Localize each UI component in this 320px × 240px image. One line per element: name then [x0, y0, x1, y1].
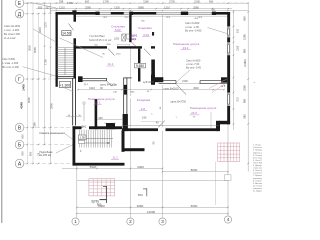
- top exterior wall: [56, 12, 231, 15]
- right rotated dimension numbers col1: [237, 28, 240, 101]
- main bottom exterior wall left part: [122, 128, 158, 131]
- svg-text:600: 600: [243, 16, 247, 21]
- svg-text:1786: 1786: [67, 1, 73, 5]
- svg-text:щель Б=2100: щель Б=2100: [164, 88, 179, 91]
- interior wall H2 double line left: [159, 81, 176, 84]
- symbol stick with circle: [83, 102, 85, 121]
- door swing leaves: [69, 24, 165, 128]
- axis vertical below plan 2: [129, 131, 131, 218]
- svg-text:1320: 1320: [114, 5, 120, 9]
- top dimension numbers row1: [59, 0, 214, 5]
- svg-text:u отм -7.00: u отм -7.00: [186, 62, 200, 66]
- svg-text:1580: 1580: [243, 34, 247, 40]
- ticks left ladder x44.5: [44, 13, 46, 15]
- ticks left ladder x27.5: [27, 2, 29, 4]
- svg-text:Во отм -2.400: Во отм -2.400: [3, 65, 20, 69]
- lower block bottom wall: [73, 163, 125, 166]
- right dim chain verticals: [233, 10, 235, 130]
- svg-text:9.650: 9.650: [136, 64, 144, 68]
- ticks right chain x233.5: [233, 11, 235, 13]
- annotation left lower 2: [40, 151, 53, 157]
- svg-text:1: 1: [74, 219, 77, 224]
- red hatched square 2 (right): [218, 143, 240, 162]
- bottom dimension texts: [90, 165, 198, 214]
- lower block second box mark: [79, 140, 85, 143]
- door swing H2 gap: [177, 85, 187, 95]
- interior wall H1 right seg: [151, 46, 155, 48]
- grid bubbles bottom row: [72, 216, 232, 225]
- stair bay bottom band (double): [56, 75, 77, 78]
- elevation box +1.300: [59, 82, 70, 88]
- svg-text:Комната размещения: Комната размещения: [40, 132, 66, 135]
- svg-text:6065: 6065: [27, 97, 31, 103]
- svg-text:L этаж -1.300: L этаж -1.300: [3, 61, 19, 65]
- svg-text:1406: 1406: [22, 84, 26, 91]
- ticks top chain 2: [50, 8, 52, 10]
- interior wall stair right lower: [74, 38, 77, 78]
- svg-text:2160: 2160: [143, 0, 149, 4]
- walls: [56, 10, 231, 165]
- svg-text:Смес Ш-1400: Смес Ш-1400: [4, 24, 21, 28]
- axis dashed horizontals from left bubbles: [24, 3, 248, 164]
- svg-text:14090: 14090: [147, 210, 156, 214]
- windows top wall: [100, 12, 213, 15]
- interior wall V4: [151, 60, 155, 82]
- svg-text:435: 435: [98, 116, 103, 120]
- svg-text:1.38: 1.38: [80, 136, 86, 140]
- bottom overall dim line: [77, 213, 228, 215]
- axis vertical mid plan 2: [129, 48, 131, 96]
- axis vertical below plan 1: [76, 166, 78, 218]
- svg-text:Во отмет 400: Во отмет 400: [4, 32, 20, 36]
- room area underlines: [94, 32, 200, 160]
- pink leader lines: [209, 79, 227, 93]
- room label corridor 11.1: [108, 62, 114, 66]
- left rotated dark numbers: [20, 84, 26, 109]
- svg-text:1790: 1790: [103, 0, 109, 4]
- svg-text:585: 585: [243, 114, 247, 119]
- page border left edge: [1, 0, 3, 223]
- grid bubbles left column: [15, 0, 24, 168]
- svg-text:13.1: 13.1: [183, 46, 189, 50]
- svg-text:Д-1: Д-1: [84, 83, 89, 86]
- top dim chain line 2: [36, 8, 232, 10]
- interior wall H1 mid seg: [117, 46, 142, 48]
- svg-text:(1180): (1180): [243, 59, 247, 66]
- left dim ladder verticals: [27, 3, 29, 163]
- annotation block 3 right upper: [185, 21, 202, 33]
- svg-text:11.2: 11.2: [112, 156, 118, 160]
- svg-text:1350: 1350: [237, 45, 240, 51]
- svg-text:Г: Г: [18, 77, 21, 83]
- bottom dim chain line A right: [163, 171, 229, 173]
- svg-text:5920: 5920: [90, 165, 97, 169]
- red hatched square 1 (bottom centre): [89, 179, 115, 196]
- svg-text:600: 600: [85, 0, 90, 4]
- interior wall H1 left seg: [76, 46, 107, 48]
- door dim line small: [117, 44, 130, 45]
- svg-text:1790: 1790: [44, 59, 48, 65]
- svg-text:980: 980: [243, 98, 247, 103]
- svg-text:900: 900: [29, 151, 33, 156]
- windows right wall: [227, 26, 230, 106]
- top dim chain line 3: [50, 10, 248, 12]
- interior wall V5 double line: [124, 78, 132, 121]
- bottom dim chain line A left: [62, 168, 163, 170]
- svg-text:u отм. -1.00: u отм. -1.00: [185, 25, 199, 29]
- left rotated dimension numbers: [21, 22, 54, 157]
- svg-text:500: 500: [138, 193, 143, 197]
- svg-text:Помещение досуга: Помещение досуга: [190, 106, 217, 110]
- svg-text:1210: 1210: [116, 53, 122, 55]
- wall crossing dim at west wall: [66, 115, 82, 118]
- room label B: [138, 26, 152, 37]
- terrace edge line: [77, 180, 228, 182]
- svg-text:2160: 2160: [194, 0, 200, 4]
- top dimension numbers row2: [38, 5, 216, 11]
- svg-text:3.03: 3.03: [143, 33, 149, 37]
- svg-text:2620: 2620: [28, 45, 32, 51]
- svg-text:1180: 1180: [33, 122, 37, 128]
- axis vertical mid plan 3: [162, 15, 164, 81]
- interior wall stair right pier: [72, 10, 76, 14]
- svg-text:Sобл=8.05·0.11 м2: Sобл=8.05·0.11 м2: [89, 38, 112, 42]
- svg-text:6065: 6065: [33, 47, 37, 53]
- svg-text:2580: 2580: [193, 5, 199, 9]
- svg-text:2700: 2700: [169, 0, 175, 4]
- svg-text:Помещение досуга: Помещение досуга: [88, 97, 115, 101]
- V5 dark segment: [124, 85, 127, 95]
- room label C: [173, 42, 200, 50]
- svg-text:5.02: 5.02: [115, 28, 121, 32]
- svg-text:14.50: 14.50: [62, 32, 71, 36]
- svg-text:2: 2: [129, 219, 132, 224]
- svg-text:Омс 0-500: Омс 0-500: [3, 57, 16, 61]
- bottom wall inner face line: [122, 124, 219, 126]
- interior wall V7: [95, 99, 98, 129]
- chimney pier lower block: [106, 123, 115, 129]
- interior wall H4 pier: [78, 76, 83, 82]
- svg-text:600: 600: [21, 134, 25, 139]
- bottom section mark text: [91, 200, 102, 207]
- svg-text:№-150 м2: №-150 м2: [40, 154, 52, 157]
- svg-text:605: 605: [38, 5, 43, 9]
- annotation Ykl: [89, 34, 112, 42]
- svg-text:+: +: [254, 80, 256, 84]
- svg-text:3080: 3080: [137, 204, 144, 208]
- lower block right wall: [122, 130, 125, 151]
- lower block top wall: [73, 126, 82, 129]
- svg-text:600: 600: [209, 0, 214, 4]
- room label G lower block: [112, 156, 118, 160]
- svg-text:с отм. -1.300: с отм. -1.300: [4, 28, 20, 32]
- ticks bottom chain y171.6: [162, 171, 164, 173]
- right exterior wall: [227, 12, 230, 124]
- leader lines: [23, 2, 227, 153]
- svg-text:3: 3: [161, 219, 164, 224]
- stair arrow line: [64, 48, 66, 75]
- svg-text:4349: 4349: [20, 102, 24, 109]
- dimension tick marks: [27, 2, 249, 214]
- svg-text:1210: 1210: [59, 5, 65, 9]
- svg-text:Смсп 6+600: Смсп 6+600: [186, 59, 201, 63]
- svg-text:2900: 2900: [193, 87, 199, 90]
- room label F: [190, 106, 217, 119]
- interior wall H2 pier left: [151, 75, 155, 85]
- room label A: [111, 25, 125, 32]
- axis vertical below plan 4: [227, 125, 229, 216]
- interior wall V2 kladovaya: [129, 15, 131, 43]
- svg-text:6000: 6000: [191, 204, 198, 208]
- svg-text:2г+1,в м2: 2г+1,в м2: [4, 36, 16, 40]
- svg-text:ШУ1: ШУ1: [132, 34, 138, 38]
- svg-text:11.1: 11.1: [108, 62, 114, 66]
- bottom-right exterior wall: [219, 121, 230, 125]
- bottom section flag: [100, 186, 107, 203]
- interior wall H2 double line right: [200, 81, 227, 84]
- svg-text:1250: 1250: [114, 39, 120, 41]
- room label D: [88, 97, 115, 105]
- ticks bottom chain y168.5: [76, 168, 78, 170]
- in-plan dim line 1910: [77, 86, 225, 94]
- step edge vertical below plan: [215, 162, 217, 206]
- ticks left ladder x33: [32, 13, 34, 15]
- terrace step symbol right: [224, 175, 231, 181]
- svg-text:11. Водоснабж. центр.: 11. Водоснабж. центр.: [253, 191, 262, 193]
- top wall inner face line: [76, 15, 227, 17]
- middle landing line: [78, 138, 113, 140]
- svg-text:3400: 3400: [137, 165, 144, 169]
- bottom dim chain line B: [77, 206, 228, 208]
- svg-text:щ Б=2100: щ Б=2100: [143, 81, 155, 84]
- main bottom exterior wall right part: [166, 128, 220, 131]
- svg-text:190: 190: [142, 116, 147, 120]
- svg-text:Смсп 6+600: Смсп 6+600: [185, 21, 200, 25]
- svg-text:24.6: 24.6: [191, 111, 197, 115]
- top wall pier blocks: [96, 12, 100, 15]
- svg-text:Yкл=94.05м2: Yкл=94.05м2: [89, 34, 105, 38]
- right bottom notes column: [253, 145, 274, 193]
- svg-text:8000: 8000: [191, 168, 198, 172]
- right rotated dimension numbers col2: [243, 16, 248, 119]
- right wall interior pier: [221, 77, 227, 82]
- svg-text:2.8: 2.8: [141, 107, 146, 111]
- svg-text:910: 910: [237, 28, 240, 33]
- svg-text:Во отм -0.45: Во отм -0.45: [186, 65, 201, 69]
- lower block left wall: [73, 126, 76, 165]
- annotation block 2 left: [3, 57, 20, 69]
- svg-text:6000: 6000: [98, 204, 105, 208]
- bottom 500 flag: [143, 188, 147, 196]
- lower stair treads: [78, 130, 113, 148]
- svg-text:Кладовая: Кладовая: [137, 98, 151, 102]
- svg-text:900: 900: [21, 151, 25, 156]
- svg-text:2160: 2160: [182, 79, 188, 83]
- svg-text:1210: 1210: [164, 5, 170, 9]
- svg-text:2900: 2900: [50, 103, 54, 109]
- svg-text:Во отм -0.450: Во отм -0.450: [185, 29, 202, 33]
- ticks top chain 3: [56, 10, 58, 12]
- lower block step wall to right: [122, 148, 145, 151]
- upper stair treads: [57, 47, 74, 75]
- ticks left ladder x38.5: [38, 13, 40, 15]
- ticks left ladder x50.5: [50, 11, 52, 13]
- svg-text:5980: 5980: [138, 5, 144, 9]
- lower block small box mark: [79, 135, 87, 140]
- ticks right chain x251: [247, 11, 249, 13]
- axis vertical below plan 3: [162, 131, 164, 218]
- small vent block: [152, 32, 154, 36]
- ticks top chain 1: [27, 2, 29, 4]
- top dim chain line 1: [24, 2, 248, 4]
- in-plan dim 435: [97, 116, 122, 125]
- interior wall H4 double line: [83, 78, 107, 81]
- svg-text:щель Б=2700: щель Б=2700: [171, 100, 187, 103]
- svg-text:18.1: 18.1: [95, 101, 101, 105]
- elevation box 14.50: [62, 31, 71, 36]
- svg-text:2260: 2260: [243, 85, 247, 91]
- annotation block 1 top-left: [4, 24, 21, 40]
- stair arrow: [80, 142, 110, 144]
- svg-text:4 УП: 4 УП: [112, 85, 117, 87]
- ticks bottom chain y213.5: [76, 213, 78, 215]
- svg-text:СК: СК: [37, 152, 41, 156]
- svg-text:ЩЭ: ЩЭ: [132, 37, 137, 41]
- stair bay left wall: [56, 12, 58, 87]
- V5 bottom block: [123, 114, 128, 131]
- interior wall V3: [138, 49, 140, 82]
- svg-text:980: 980: [243, 48, 247, 53]
- in-plan door dim 2160: [175, 79, 201, 84]
- WC fixture symbols: [122, 34, 130, 41]
- ticks bottom chain y207.4: [76, 207, 78, 209]
- elevation box 9.650: [135, 63, 146, 68]
- room label E: [137, 98, 151, 111]
- west wall lower (double line): [71, 79, 74, 126]
- annotation block 4 right mid: [186, 59, 201, 70]
- svg-text:ДН1: ДН1: [82, 126, 87, 128]
- svg-text:298: 298: [59, 0, 64, 4]
- window tags under top wall: [103, 17, 203, 19]
- svg-text:Кладовая: Кладовая: [138, 26, 152, 30]
- svg-text:+1.300: +1.300: [60, 83, 71, 87]
- svg-text:1170: 1170: [44, 22, 48, 28]
- bottom-right step pier: [216, 121, 220, 131]
- svg-text:4: 4: [227, 217, 230, 222]
- interior wall stair right upper: [74, 12, 77, 22]
- svg-text:2580: 2580: [85, 5, 91, 9]
- svg-text:1910: 1910: [89, 86, 95, 90]
- svg-text:910: 910: [237, 97, 240, 102]
